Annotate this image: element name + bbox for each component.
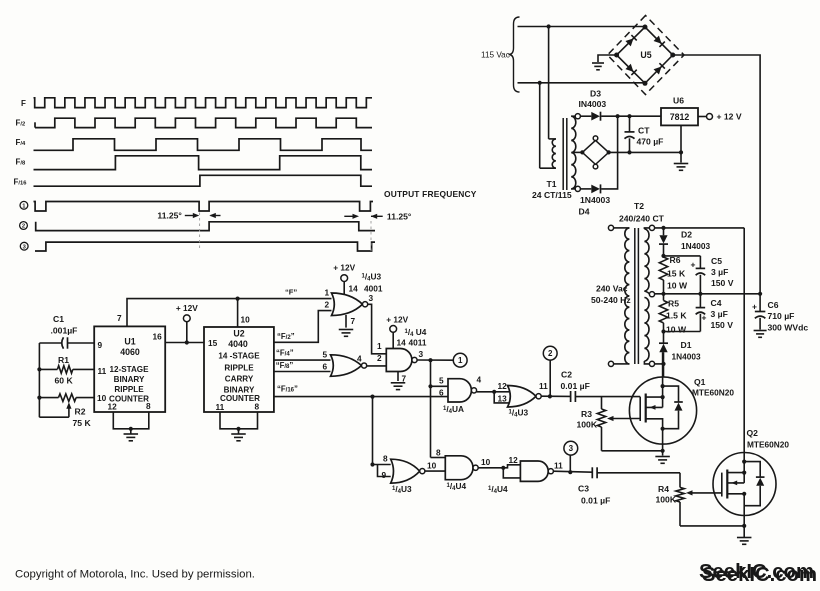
svg-text:11.25°: 11.25° (387, 212, 412, 222)
svg-text:1/4 U4: 1/4 U4 (405, 327, 427, 338)
svg-text:10 W: 10 W (666, 324, 687, 334)
svg-text:3 µF: 3 µF (711, 267, 728, 277)
svg-text:1/4U4: 1/4U4 (447, 481, 467, 492)
svg-text:R5: R5 (668, 299, 679, 309)
svg-text:4: 4 (357, 353, 362, 363)
svg-text:6: 6 (323, 362, 328, 372)
svg-text:Copyright of Motorola, Inc. Us: Copyright of Motorola, Inc. Used by perm… (15, 569, 255, 581)
svg-text:12-STAGE: 12-STAGE (110, 365, 150, 374)
svg-text:2: 2 (22, 224, 25, 230)
svg-text:T1: T1 (547, 179, 557, 189)
svg-text:+: + (702, 312, 707, 322)
svg-text:+ 12V: + 12V (176, 303, 198, 313)
svg-text:CARRY: CARRY (225, 374, 254, 383)
svg-text:2: 2 (325, 300, 330, 310)
svg-text:D1: D1 (681, 340, 692, 350)
svg-text:10: 10 (481, 457, 491, 467)
svg-text:RIPPLE: RIPPLE (114, 385, 144, 394)
svg-text:11: 11 (98, 366, 107, 376)
svg-text:4001: 4001 (364, 283, 383, 293)
svg-text:100K: 100K (656, 495, 677, 505)
svg-text:2: 2 (548, 349, 553, 358)
svg-text:7: 7 (351, 316, 356, 326)
svg-text:1/4U3: 1/4U3 (392, 484, 412, 495)
svg-text:470 µF: 470 µF (637, 137, 664, 147)
svg-text:10 W: 10 W (667, 281, 688, 291)
svg-text:150 V: 150 V (711, 320, 734, 330)
svg-text:10: 10 (241, 315, 251, 325)
svg-text:C4: C4 (711, 298, 722, 308)
svg-text:13: 13 (498, 394, 508, 404)
svg-text:9: 9 (382, 470, 387, 480)
svg-text:Q2: Q2 (747, 428, 759, 438)
svg-text:11.25°: 11.25° (157, 211, 182, 221)
svg-text:D4: D4 (579, 207, 590, 217)
svg-text:R3: R3 (581, 409, 592, 419)
svg-text:15 K: 15 K (667, 269, 686, 279)
svg-text:+ 12V: + 12V (333, 263, 355, 273)
svg-text:T2: T2 (634, 201, 644, 211)
svg-text:C5: C5 (711, 256, 722, 266)
svg-text:U2: U2 (233, 328, 244, 338)
svg-text:9: 9 (98, 340, 103, 350)
svg-text:Q1: Q1 (694, 377, 706, 387)
svg-text:240/240 CT: 240/240 CT (619, 214, 665, 224)
svg-text:8: 8 (436, 447, 441, 457)
svg-text:R1: R1 (58, 355, 69, 365)
svg-text:1/4UA: 1/4UA (443, 404, 464, 415)
svg-text:1N4003: 1N4003 (681, 241, 710, 251)
svg-text:14: 14 (349, 284, 359, 294)
svg-text:U6: U6 (673, 95, 684, 105)
svg-text:14: 14 (397, 338, 407, 348)
svg-text:12: 12 (498, 381, 508, 391)
svg-text:1N4003: 1N4003 (580, 195, 610, 205)
svg-text:5: 5 (323, 349, 328, 359)
svg-text:MTE60N20: MTE60N20 (747, 440, 789, 450)
svg-text:7: 7 (117, 313, 122, 323)
svg-text:+ 12 V: + 12 V (717, 112, 742, 122)
svg-text:1.5 K: 1.5 K (666, 311, 687, 321)
svg-text:100K: 100K (577, 419, 598, 429)
svg-text:2: 2 (377, 353, 382, 363)
svg-text:240 Vac: 240 Vac (596, 283, 628, 293)
svg-text:C3: C3 (578, 484, 589, 494)
svg-text:1: 1 (458, 356, 463, 365)
svg-text:4060: 4060 (120, 347, 140, 357)
svg-text:300 WVdc: 300 WVdc (768, 322, 809, 332)
svg-text:R2: R2 (75, 407, 86, 417)
svg-text:IN4003: IN4003 (579, 99, 607, 109)
svg-text:MTE60N20: MTE60N20 (692, 387, 734, 397)
svg-text:710 µF: 710 µF (768, 311, 795, 321)
svg-text:D3: D3 (590, 88, 601, 98)
svg-text:BINARY: BINARY (114, 375, 145, 384)
svg-text:U1: U1 (124, 337, 135, 347)
svg-text:RIPPLE: RIPPLE (224, 363, 254, 372)
svg-text:4040: 4040 (228, 339, 248, 349)
svg-text:C6: C6 (768, 300, 779, 310)
svg-text:14 -STAGE: 14 -STAGE (218, 352, 260, 361)
svg-text:C2: C2 (561, 370, 572, 380)
svg-text:.001µF: .001µF (51, 325, 78, 335)
svg-text:1/4U4: 1/4U4 (488, 484, 508, 495)
svg-text:60 K: 60 K (55, 375, 74, 385)
svg-text:C1: C1 (53, 314, 64, 324)
svg-text:D2: D2 (681, 229, 692, 239)
svg-text:4011: 4011 (409, 338, 427, 348)
svg-text:8: 8 (383, 454, 388, 464)
svg-text:7812: 7812 (670, 112, 690, 122)
svg-text:16: 16 (153, 332, 163, 342)
svg-text:R4: R4 (658, 484, 669, 494)
svg-text:1N4003: 1N4003 (672, 352, 701, 362)
svg-text:12: 12 (108, 402, 118, 412)
svg-text:0.01 µF: 0.01 µF (561, 381, 590, 391)
svg-text:11: 11 (539, 381, 548, 391)
svg-text:3: 3 (569, 444, 574, 453)
svg-text:1: 1 (325, 287, 330, 297)
svg-text:CT: CT (638, 126, 650, 136)
svg-text:3: 3 (419, 349, 424, 359)
svg-text:10: 10 (427, 460, 437, 470)
svg-text:11: 11 (216, 402, 225, 412)
svg-text:6: 6 (439, 388, 444, 398)
svg-text:4: 4 (477, 375, 482, 385)
svg-text:+: + (752, 302, 757, 312)
svg-text:115 Vac: 115 Vac (481, 51, 510, 60)
svg-text:24 CT/115: 24 CT/115 (532, 190, 572, 200)
svg-text:OUTPUT FREQUENCY: OUTPUT FREQUENCY (384, 189, 477, 199)
svg-text:15: 15 (208, 338, 218, 348)
svg-text:3 µF: 3 µF (711, 309, 728, 319)
svg-text:8: 8 (146, 401, 151, 411)
svg-text:12: 12 (509, 455, 519, 465)
svg-text:75 K: 75 K (73, 418, 92, 428)
svg-text:50-240 Hz: 50-240 Hz (591, 295, 631, 305)
svg-text:F: F (21, 99, 26, 108)
svg-text:10: 10 (97, 393, 107, 403)
svg-text:R6: R6 (670, 255, 681, 265)
svg-text:1/4U3: 1/4U3 (362, 271, 382, 282)
svg-text:SeekIC.com: SeekIC.com (702, 564, 817, 586)
svg-text:1/4U3: 1/4U3 (509, 407, 529, 418)
svg-text:+: + (691, 260, 696, 270)
svg-text:0.01 µF: 0.01 µF (581, 496, 610, 506)
svg-text:150 V: 150 V (711, 278, 734, 288)
svg-text:1: 1 (377, 341, 382, 351)
svg-text:+ 12V: + 12V (386, 315, 408, 325)
svg-text:3: 3 (369, 293, 374, 303)
svg-text:“F”: “F” (285, 288, 297, 297)
svg-text:8: 8 (255, 401, 260, 411)
svg-text:U5: U5 (640, 50, 651, 60)
svg-text:11: 11 (554, 461, 563, 471)
svg-text:5: 5 (439, 376, 444, 386)
svg-text:7: 7 (402, 373, 407, 383)
